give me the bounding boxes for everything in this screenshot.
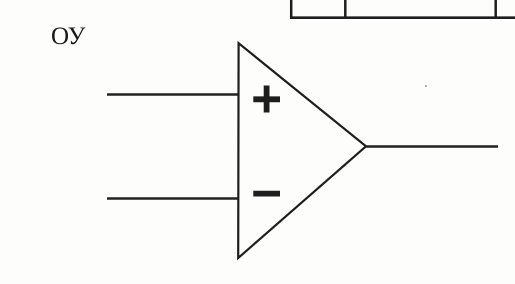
table fragment vertical divider 1: [290, 0, 293, 19]
wire: inverting input: [107, 197, 239, 199]
inverting input marker −: [253, 191, 280, 197]
scan speck (faint dot): [425, 85, 427, 87]
wire: output: [366, 145, 498, 147]
table fragment vertical divider 3: [494, 0, 497, 19]
table fragment bottom border (horizontal line): [290, 16, 515, 19]
wire: non-inverting input: [107, 93, 239, 95]
non-inverting input marker +: [253, 86, 280, 113]
svg-text:ОУ: ОУ: [51, 23, 86, 50]
op-amp U1 (triangle body): [238, 43, 366, 258]
table fragment vertical divider 2: [344, 0, 347, 19]
